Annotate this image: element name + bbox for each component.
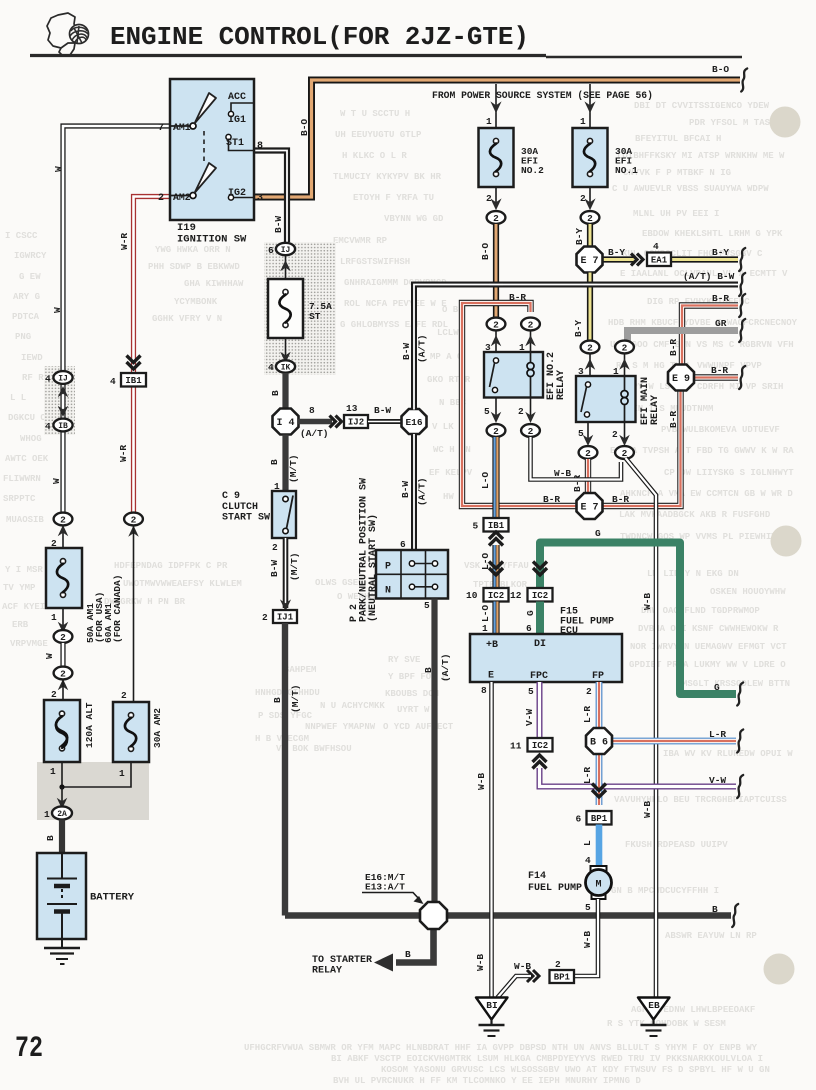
svg-text:IB1: IB1	[125, 376, 142, 386]
wire W from ignition AM1 down left side	[63, 126, 170, 371]
svg-text:B-W: B-W	[269, 560, 280, 577]
connector 2 BP1	[550, 970, 575, 983]
svg-text:DVBNA OYI KSNF CWWHEWOKW R: DVBNA OYI KSNF CWWHEWOKW R	[638, 624, 779, 634]
svg-text:8: 8	[481, 685, 487, 696]
fusible link 120A ALT	[44, 700, 80, 762]
svg-text:1: 1	[119, 768, 125, 779]
node 2 oval GR into relay coil	[615, 341, 634, 354]
svg-text:EF KELPV: EF KELPV	[429, 468, 473, 478]
starter junction octagon E16/E13	[420, 902, 447, 929]
svg-text:LM LID Y N EKG DN: LM LID Y N EKG DN	[647, 569, 739, 579]
wire W-R from ignition AM2	[134, 197, 171, 373]
svg-text:2: 2	[518, 406, 524, 417]
svg-text:NNPWEF YMAPNW: NNPWEF YMAPNW	[305, 722, 376, 732]
pin 1 of AM1 fuse	[62, 608, 64, 630]
svg-text:NOR IWRVYEN UEMAGWV EFMGT VCT: NOR IWRVYEN UEMAGWV EFMGT VCT	[630, 642, 787, 652]
node 4 IJ oval	[53, 371, 72, 384]
arrow pin2 down	[530, 398, 532, 419]
clutch start switch C9	[272, 491, 296, 538]
punch hole top right	[770, 107, 801, 138]
wire L-R ECU FP to B6	[596, 682, 603, 729]
svg-text:6: 6	[400, 539, 406, 550]
svg-text:TO STARTER: TO STARTER	[312, 955, 372, 966]
wire B-W IJ2 to E16	[368, 419, 402, 424]
svg-text:W: W	[52, 307, 63, 313]
svg-text:MLNL UH PV EEI I: MLNL UH PV EEI I	[633, 209, 719, 219]
svg-text:W-R: W-R	[119, 233, 130, 250]
svg-text:2: 2	[60, 632, 66, 643]
arrow pin1	[530, 330, 532, 352]
arrow pin5 down	[587, 422, 589, 441]
svg-text:2A: 2A	[57, 810, 67, 819]
arrow up to IJ	[285, 255, 287, 279]
svg-text:IJ2: IJ2	[348, 418, 364, 428]
svg-text:DBI DT CVVITSSIGENCO YDEW: DBI DT CVVITSSIGENCO YDEW	[634, 101, 770, 111]
relay EFI MAIN	[576, 376, 636, 422]
svg-text:AM1: AM1	[173, 122, 191, 133]
continuation mark G	[737, 683, 743, 706]
wire W-B fuel pump to BP1	[574, 899, 598, 976]
wire B-R E7 to E9 riser	[603, 391, 681, 507]
gray shade behind battery feed junction	[37, 762, 149, 820]
svg-text:NO.1: NO.1	[615, 165, 638, 176]
svg-text:L-O: L-O	[480, 605, 491, 622]
svg-text:ST: ST	[309, 311, 321, 322]
junction dot battery node	[59, 784, 64, 789]
svg-text:2: 2	[262, 612, 268, 623]
punch hole bottom right	[764, 954, 795, 985]
svg-text:B: B	[272, 697, 283, 703]
svg-text:E13:A/T: E13:A/T	[365, 882, 405, 893]
svg-text:IGWRCY: IGWRCY	[14, 251, 47, 261]
svg-text:E 9: E 9	[672, 374, 690, 385]
node 2 oval B-R into relay coil	[521, 318, 540, 331]
wire B-W crossing over B-Y	[583, 282, 597, 288]
svg-text:B-Y: B-Y	[608, 247, 625, 258]
svg-text:GN B MPCWDCUCYFFHH I: GN B MPCWDCUCYFFHH I	[611, 886, 719, 896]
wire B junction to right edge	[446, 912, 731, 919]
arrow pin1	[624, 353, 626, 376]
svg-text:IB: IB	[58, 422, 68, 431]
svg-text:120A ALT: 120A ALT	[84, 702, 95, 748]
svg-text:1: 1	[44, 809, 50, 820]
ACC contact bracket	[231, 103, 254, 111]
svg-text:B-Y: B-Y	[574, 228, 585, 245]
svg-text:G EW: G EW	[19, 272, 41, 282]
svg-text:ACC: ACC	[228, 92, 246, 103]
svg-text:BI ABKF VSCTP EOICKVHGMTRK LSU: BI ABKF VSCTP EOICKVHGMTRK LSUM HLKGA CM…	[331, 1054, 763, 1064]
svg-text:VRPVMGE: VRPVMGE	[10, 639, 48, 649]
svg-text:2: 2	[528, 319, 534, 330]
svg-text:B: B	[270, 390, 281, 396]
svg-text:V-W: V-W	[524, 709, 535, 726]
continuation mark GR	[739, 319, 745, 342]
svg-text:UOMNGOO CMF BWN VS MS C RGBRVN: UOMNGOO CMF BWN VS MS C RGBRVN VFH	[610, 340, 794, 350]
arrow up into IJ	[58, 386, 69, 397]
svg-text:START SW: START SW	[222, 513, 270, 524]
svg-text:(NEUTRAL START SW): (NEUTRAL START SW)	[367, 514, 379, 622]
svg-text:RELAY: RELAY	[556, 370, 567, 400]
svg-text:I CSCC: I CSCC	[5, 231, 38, 241]
svg-text:CLUTCH: CLUTCH	[222, 502, 258, 513]
pin 2 of fuse NO.2	[495, 187, 497, 206]
wire B-Y E7 down to EFI MAIN relay	[587, 273, 593, 342]
svg-text:(M/T): (M/T)	[290, 684, 301, 713]
svg-text:F14: F14	[528, 871, 546, 882]
node 2 oval above AM1 fuse	[62, 526, 64, 549]
svg-text:2: 2	[612, 429, 618, 440]
svg-text:2: 2	[131, 514, 137, 525]
svg-text:2: 2	[580, 193, 586, 204]
connector 13 IJ2	[344, 415, 368, 428]
svg-text:B-R: B-R	[612, 494, 629, 505]
wire V-W ECU FPC to IC2	[537, 682, 543, 738]
svg-text:5: 5	[528, 686, 534, 697]
wire V-W IC2 to right edge	[540, 768, 737, 787]
arrow down to 2A	[61, 787, 63, 806]
wire B-R main pin5 to E7	[585, 459, 591, 494]
node 2 oval relay pin5	[487, 424, 506, 437]
svg-text:B-Y: B-Y	[712, 247, 729, 258]
svg-text:EB: EB	[648, 1000, 660, 1011]
svg-text:72: 72	[15, 1032, 43, 1066]
svg-text:5: 5	[578, 428, 584, 439]
svg-text:1: 1	[486, 116, 492, 127]
svg-text:W: W	[44, 653, 55, 659]
continuation mark L-R	[737, 730, 743, 753]
svg-text:BI: BI	[486, 1000, 497, 1011]
wire B (A/T) P2 to starter junction	[431, 599, 437, 903]
svg-text:B-R: B-R	[509, 292, 526, 303]
svg-text:FP: FP	[592, 671, 604, 682]
svg-text:3: 3	[257, 193, 263, 204]
svg-text:10: 10	[466, 590, 478, 601]
svg-text:GPDIET PRFA LUKMY WW V LDRE O: GPDIET PRFA LUKMY WW V LDRE O	[629, 660, 786, 670]
svg-text:PHH SDWP B EBKWWD: PHH SDWP B EBKWWD	[148, 262, 240, 272]
svg-text:ACF KYEII: ACF KYEII	[2, 602, 51, 612]
svg-text:C U AWUEVLR VBSS SUAUYWA WDPW: C U AWUEVLR VBSS SUAUYWA WDPW	[612, 184, 769, 194]
node 6 IJ oval	[276, 243, 295, 255]
svg-text:GGHK VFRY V N: GGHK VFRY V N	[152, 314, 222, 324]
svg-text:W: W	[53, 166, 64, 172]
arrow into IJ1	[280, 599, 291, 611]
svg-text:Y BPF FOW E: Y BPF FOW E	[388, 672, 448, 682]
svg-text:(A/T): (A/T)	[417, 334, 428, 363]
node 2 oval under fuse NO.2	[487, 211, 506, 224]
svg-text:8: 8	[257, 141, 263, 152]
junction E 7 octagon lower	[577, 493, 603, 519]
svg-text:2: 2	[586, 686, 592, 697]
svg-text:B-R: B-R	[668, 339, 679, 356]
svg-text:G: G	[525, 610, 536, 616]
continuation mark B-R	[739, 366, 745, 389]
svg-text:IBA WV KV RLUREDW OPUI W: IBA WV KV RLUREDW OPUI W	[663, 749, 793, 759]
arrows into EA1	[631, 254, 643, 266]
ground EB	[638, 998, 670, 1020]
svg-text:B-Y: B-Y	[573, 320, 584, 337]
svg-text:M: M	[595, 880, 601, 891]
svg-text:FUEL PUMP: FUEL PUMP	[528, 883, 582, 894]
svg-text:5: 5	[424, 600, 430, 611]
connector 10 IC2	[484, 588, 509, 602]
svg-text:B 6: B 6	[590, 738, 608, 749]
TO STARTER RELAY arrow	[374, 954, 393, 972]
node 2 oval main pin5	[579, 446, 598, 459]
fusible link 30A AM2	[113, 702, 149, 762]
header rule extension	[546, 56, 742, 59]
node 2 oval B-Y into relay	[581, 341, 600, 354]
svg-text:IK: IK	[281, 363, 291, 372]
svg-text:W-B: W-B	[514, 961, 531, 972]
connector 5 IB1	[484, 518, 509, 532]
connector 11 IC2	[528, 738, 553, 752]
wire L-O relay pin5 to IB1	[492, 437, 499, 518]
svg-text:RELAY: RELAY	[650, 395, 661, 425]
svg-text:2: 2	[272, 542, 278, 553]
svg-text:UYRT W: UYRT W	[397, 705, 430, 715]
svg-text:ECYNA TVPSH A T FBD TG GWWV K: ECYNA TVPSH A T FBD TG GWWV K W RA	[610, 446, 794, 456]
wire feed to fuse 30A EFI NO.2	[495, 84, 497, 128]
continuation mark V-W	[737, 775, 743, 798]
connector 4 IB1	[127, 356, 141, 370]
wire B-W down to IJ1	[283, 538, 289, 608]
svg-text:MUAOSIB: MUAOSIB	[6, 515, 44, 525]
svg-text:B: B	[269, 459, 280, 465]
svg-text:IG1: IG1	[228, 115, 246, 126]
svg-text:IC2: IC2	[532, 741, 548, 751]
pin 1 of 30A AM2	[62, 762, 131, 787]
wire down to 30A AM2	[133, 526, 135, 703]
svg-text:W: W	[51, 478, 62, 484]
svg-text:FLIWWRN: FLIWWRN	[3, 474, 41, 484]
ignition switch I19	[170, 79, 254, 220]
svg-text:BFEYITUL BFCAI H: BFEYITUL BFCAI H	[635, 134, 721, 144]
svg-text:BP1: BP1	[591, 814, 608, 824]
fuel pump ECU F15	[470, 634, 622, 682]
svg-text:B-R: B-R	[711, 365, 728, 376]
svg-text:ERB: ERB	[12, 620, 29, 630]
svg-text:L-R: L-R	[582, 706, 593, 723]
svg-text:2: 2	[587, 213, 593, 224]
svg-text:PDTCA: PDTCA	[12, 312, 40, 322]
svg-text:YWG HWKA ORR N: YWG HWKA ORR N	[155, 245, 231, 255]
svg-text:FPC: FPC	[530, 671, 548, 682]
svg-text:LOIBHFFKSKY MI ATSP WRNKHW ME: LOIBHFFKSKY MI ATSP WRNKHW ME W	[617, 151, 785, 161]
svg-text:IC2: IC2	[488, 591, 504, 601]
connector 6 BP1	[587, 811, 612, 825]
node 2 oval main pin2	[615, 446, 634, 459]
svg-text:EA1: EA1	[651, 256, 668, 266]
arrow pin3	[589, 353, 591, 376]
svg-text:O B: O B	[442, 305, 459, 315]
wire G fuel pump ECU DI loop to right edge	[540, 543, 736, 695]
svg-text:C 9: C 9	[222, 491, 240, 502]
connector 12 IC2	[528, 588, 553, 602]
svg-text:W-B: W-B	[476, 773, 487, 790]
svg-text:4: 4	[45, 374, 51, 385]
wire B from IJ1 to starter junction	[285, 623, 420, 916]
svg-text:I19: I19	[177, 222, 196, 234]
svg-text:I 4: I 4	[276, 418, 294, 429]
junction E16 octagon	[402, 409, 427, 434]
svg-text:DI: DI	[534, 639, 546, 650]
svg-text:5: 5	[484, 406, 490, 417]
svg-text:V LK: V LK	[432, 422, 454, 432]
svg-text:1: 1	[580, 116, 586, 127]
svg-text:2: 2	[60, 668, 66, 679]
wire to IJ2	[298, 419, 332, 424]
svg-text:UFHGCRFVWUA SBMWR OR YFM MAPC: UFHGCRFVWUA SBMWR OR YFM MAPC HLNBDRAT H…	[244, 1043, 758, 1053]
svg-text:W-B: W-B	[642, 593, 653, 610]
wire G IC2 to ECU DI	[536, 602, 544, 635]
svg-text:FROM POWER SOURCE SYSTEM (SEE: FROM POWER SOURCE SYSTEM (SEE PAGE 56)	[432, 90, 653, 101]
svg-text:KOSOM YASONU GRVUSC LCS WLSOSS: KOSOM YASONU GRVUSC LCS WLSOSSGBV UWO AT…	[381, 1065, 770, 1075]
svg-text:B: B	[423, 667, 434, 673]
svg-text:2: 2	[528, 426, 534, 437]
arrow down to IK	[285, 338, 287, 360]
svg-text:W T U SCCTU H: W T U SCCTU H	[340, 109, 410, 119]
svg-text:N U ACHYCMKK: N U ACHYCMKK	[320, 701, 385, 711]
dashed link between levers	[203, 131, 205, 165]
svg-text:2: 2	[622, 342, 628, 353]
svg-text:L-R: L-R	[709, 729, 726, 740]
svg-text:LAK MVKAADBGCK AKB R FUSFGHD: LAK MVKAADBGCK AKB R FUSFGHD	[619, 510, 771, 520]
continuation mark B-R	[739, 294, 745, 317]
svg-text:BVH UL PVRCNUKR H FF KM TLCOMN: BVH UL PVRCNUKR H FF KM TLCOMNKO Y EE IE…	[333, 1076, 641, 1086]
ground BI	[476, 998, 508, 1020]
svg-text:ST1: ST1	[226, 138, 244, 149]
svg-text:B-R: B-R	[668, 411, 679, 428]
wire W-B relay pin2 link	[531, 437, 622, 480]
punch hole middle right	[771, 526, 802, 557]
svg-text:GHA KIWHHAW: GHA KIWHHAW	[184, 279, 244, 289]
svg-text:IG2: IG2	[228, 188, 246, 199]
arrow into oval 2	[58, 525, 69, 536]
svg-text:TV YMP: TV YMP	[3, 583, 36, 593]
svg-text:(M/T): (M/T)	[288, 454, 299, 483]
svg-text:EMCVWMR RP: EMCVWMR RP	[333, 236, 388, 246]
node 2 oval relay pin2	[521, 424, 540, 437]
arrow up into oval	[58, 679, 69, 690]
wire B-W crossing over B-O	[489, 282, 503, 288]
continuation mark B	[732, 904, 738, 927]
wire B-O from IG2 up and across top	[254, 80, 740, 197]
svg-text:W-B: W-B	[475, 954, 486, 971]
svg-text:G GHLOBMYSS EAFE RDL: G GHLOBMYSS EAFE RDL	[340, 320, 448, 330]
junction E 9 octagon	[668, 365, 694, 391]
IG1 contact	[226, 134, 231, 139]
svg-text:(M/T): (M/T)	[289, 552, 300, 581]
svg-text:B: B	[45, 835, 56, 841]
svg-text:1: 1	[50, 766, 56, 777]
wire B down to I4	[282, 373, 288, 409]
svg-text:VBYNN WG GD: VBYNN WG GD	[384, 214, 444, 224]
svg-text:CNYVK F P MTBKF N IG: CNYVK F P MTBKF N IG	[623, 168, 731, 178]
svg-text:E 7: E 7	[580, 256, 598, 267]
continuation mark B-Y	[739, 248, 745, 271]
pin 2 of 120A ALT	[62, 680, 64, 701]
svg-text:ECU: ECU	[560, 626, 578, 637]
fuel pump F14 motor	[591, 866, 607, 873]
svg-text:8: 8	[309, 405, 315, 416]
svg-text:NO.2: NO.2	[521, 165, 544, 176]
svg-text:ARY G: ARY G	[13, 292, 40, 302]
svg-text:AM2: AM2	[173, 192, 191, 203]
svg-text:B-O: B-O	[299, 119, 310, 136]
svg-text:E16: E16	[405, 417, 422, 428]
svg-text:2: 2	[493, 426, 499, 437]
battery ground	[61, 939, 63, 948]
svg-text:6: 6	[526, 623, 532, 634]
wire B-W (A/T) E16 up and across to right edge	[414, 285, 738, 410]
arrows into IJ2	[330, 416, 342, 428]
svg-text:IEWD: IEWD	[21, 353, 43, 363]
svg-text:O YCD AUFMECT: O YCD AUFMECT	[383, 722, 454, 732]
svg-text:MSGLT KRSSGDLEW BTTN: MSGLT KRSSGDLEW BTTN	[682, 679, 790, 689]
junction E 7 octagon top	[577, 247, 603, 273]
svg-text:L-R: L-R	[582, 767, 593, 784]
svg-text:B-R: B-R	[712, 293, 729, 304]
svg-text:B: B	[405, 949, 411, 960]
svg-text:YCYMBONK: YCYMBONK	[174, 297, 218, 307]
fuse 50A AM1 (60A CANADA)	[46, 548, 82, 608]
battery	[37, 853, 86, 939]
svg-text:E: E	[488, 671, 494, 682]
wire B from I4 down	[282, 435, 288, 492]
svg-text:UH EEUYUGTU GTLP: UH EEUYUGTU GTLP	[335, 130, 422, 140]
svg-text:1: 1	[482, 623, 488, 634]
continuation mark B-W	[739, 273, 745, 296]
fuse 30A EFI NO.1	[573, 128, 608, 187]
svg-text:(A/T): (A/T)	[417, 477, 428, 506]
svg-text:IC2: IC2	[532, 591, 548, 601]
svg-text:ROL NCFA PEVYEE W E: ROL NCFA PEVYEE W E	[344, 299, 447, 309]
svg-text:IB1: IB1	[488, 521, 505, 531]
svg-text:L: L	[582, 840, 593, 846]
svg-text:4: 4	[653, 241, 659, 252]
svg-text:G: G	[595, 528, 601, 539]
svg-text:BP1: BP1	[554, 973, 571, 983]
svg-text:5: 5	[473, 521, 479, 532]
pin 2 of fuse NO.1	[589, 187, 591, 206]
svg-text:P: P	[385, 562, 391, 573]
arrow pin5 down	[495, 398, 497, 419]
svg-text:+B: +B	[486, 640, 498, 651]
svg-text:13: 13	[346, 403, 358, 414]
svg-text:4: 4	[268, 362, 274, 373]
svg-text:L-O: L-O	[480, 472, 491, 489]
svg-text:B-W: B-W	[401, 343, 412, 360]
fuse 7.5A ST	[268, 279, 303, 338]
svg-text:2: 2	[493, 319, 499, 330]
svg-text:B: B	[712, 904, 718, 915]
park/neutral position switch P2	[376, 550, 448, 599]
wire W between ovals	[60, 643, 65, 667]
svg-text:4: 4	[110, 376, 116, 387]
svg-text:GR: GR	[715, 318, 727, 329]
node 2 oval under fuse NO.1	[581, 211, 600, 224]
svg-text:LRFGSTSWIFHSH: LRFGSTSWIFHSH	[340, 257, 410, 267]
svg-text:W-B: W-B	[582, 931, 593, 948]
stipple shield around 7.5A ST fuse	[264, 242, 336, 375]
svg-text:BATTERY: BATTERY	[90, 892, 135, 904]
svg-text:2: 2	[585, 448, 591, 459]
arrow pin3	[495, 330, 497, 352]
svg-text:ABSWR EAYUW LN RP: ABSWR EAYUW LN RP	[665, 931, 757, 941]
svg-text:VAVUHYHKLO BEU TRCRGHBPIAPTCUI: VAVUHYHKLO BEU TRCRGHBPIAPTCUISS	[614, 795, 787, 805]
wire B-R E9 to right edge	[694, 374, 738, 380]
wire B down to starter relay arrow	[396, 928, 434, 963]
